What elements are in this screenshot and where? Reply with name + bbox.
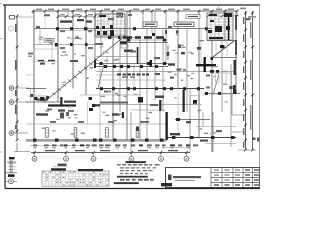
- bottom axis bubble 3: [91, 156, 96, 161]
- left inner margin marks: [28, 53, 33, 103]
- dark wall cross right: [196, 57, 216, 72]
- dark wall bar south1: [159, 100, 161, 111]
- dark wall bar left corridor: [94, 60, 96, 68]
- stair diagonal right lower: [213, 74, 219, 95]
- dark wall bar stair: [137, 47, 139, 64]
- detail bubble 1: [5, 179, 17, 184]
- misc marks: [108, 14, 169, 60]
- stair treads upper right box: [216, 42, 227, 57]
- top dimension string: [32, 9, 239, 14]
- beam label box 4: [44, 39, 54, 43]
- dark wall bar south2: [183, 90, 185, 112]
- upper-left stair block: [95, 13, 125, 36]
- axis bubble C: [9, 100, 28, 105]
- dark box row: [28, 94, 49, 101]
- small box stair base: [121, 45, 128, 49]
- bottom axis bubble 2: [64, 156, 69, 161]
- plan vertical grid lines: [34, 11, 236, 152]
- top second dimension row right: [207, 15, 239, 18]
- beam label box 2: [174, 22, 194, 27]
- mid-left text marks: [47, 109, 74, 112]
- dark wall bar south4: [122, 112, 124, 118]
- bottom dimension line: [31, 151, 190, 156]
- beam label box 1: [143, 22, 157, 27]
- scatter texture marks: [39, 34, 228, 135]
- right dimension strings: [232, 8, 260, 152]
- axis stub: [218, 5, 220, 11]
- axis bubble B: [9, 131, 28, 136]
- right edge wall segments: [233, 15, 237, 94]
- right wing marks: [176, 31, 237, 95]
- dark wall bar mid-left: [48, 104, 100, 106]
- bottom axis bubble 5: [159, 156, 164, 161]
- bottom dense text row: [33, 144, 198, 148]
- upper-right core block: [207, 13, 233, 40]
- bottom axis bubble 6: [184, 156, 189, 161]
- dark wall bar south3: [166, 112, 168, 140]
- beam label box 3: [186, 15, 200, 19]
- dark wall bar center: [150, 60, 153, 67]
- small room box right: [191, 96, 200, 105]
- left margin small box: [8, 16, 33, 20]
- mid columns with stirrups: [45, 128, 140, 138]
- top second dimension row left: [57, 15, 97, 18]
- bottom axis bubble 4: [129, 156, 134, 161]
- stair diagonal right upper: [213, 41, 234, 57]
- mid-left light vertical: [87, 102, 89, 124]
- left faint axis bubble: [9, 26, 14, 31]
- plan text labels: [36, 14, 222, 141]
- column blobs: [33, 27, 235, 141]
- bottom axis bubble 1: [32, 156, 37, 161]
- schedule table: [42, 168, 109, 186]
- plan caption: [53, 164, 67, 167]
- sheet border: [0, 4, 260, 189]
- bottom-left section detail: [5, 143, 30, 177]
- axis bubble D: [9, 86, 30, 91]
- plan walls horizontal: [26, 29, 240, 148]
- title block: [161, 168, 260, 188]
- stair treads lower right box: [212, 73, 232, 94]
- stair diagonal main: [44, 35, 126, 102]
- notes block: [114, 161, 160, 184]
- left dimension string: [16, 15, 19, 142]
